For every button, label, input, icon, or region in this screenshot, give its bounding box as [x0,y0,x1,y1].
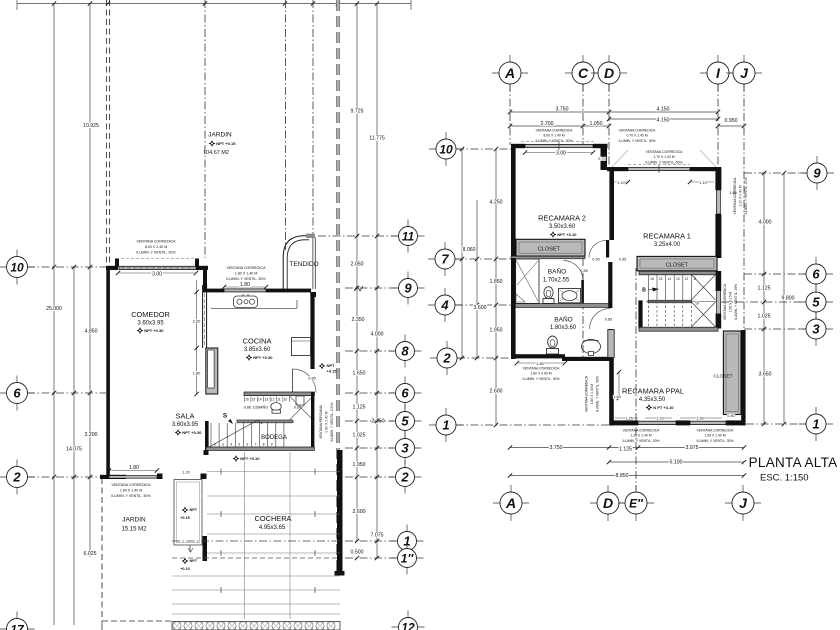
room label RECAMARA 2 [538,214,586,223]
dim text 9.800 [781,295,795,301]
cocina north wall east segment [266,289,311,293]
svg-text:6: 6 [812,267,820,282]
tendido curved wall [283,234,315,289]
grid row 2 axis (right) [345,475,394,479]
dim 1.60 (recppal west) [613,370,621,400]
grid bubble A (top) [492,55,528,91]
bottom chain 5.100 [607,459,746,465]
svg-text:104.67 M2: 104.67 M2 [203,150,229,156]
svg-text:NPT +3.10: NPT +3.10 [557,232,577,237]
grid bubble D (top) [591,55,627,91]
svg-text:3.50x3.60: 3.50x3.60 [549,224,576,230]
dim text 2.050 [350,261,364,267]
title ESC. 1:150 [760,473,809,484]
cocina door arc (south-east) [293,369,317,393]
grid bubble 4 [428,288,462,322]
grid row 3 stub (right) [744,328,806,330]
comedor north window (8.00x2.40) [119,266,196,269]
grid row 1'' axis [345,556,396,560]
dim text 0.500 [350,549,364,555]
grid bubble 2 (upper plan) [430,341,464,375]
svg-text:4.250: 4.250 [490,200,503,206]
svg-text:ILUMIN. Y VENTIL. 30%: ILUMIN. Y VENTIL. 30% [623,439,660,443]
dimension line 14.075 (vertical) [73,267,75,625]
rotated window text VENTANA PERSIANA (bodega east) [319,403,334,442]
svg-text:10: 10 [439,142,453,156]
svg-text:VENTANA CORREDICA: VENTANA CORREDICA [523,367,561,371]
grid row 2 stub (right plan) [457,357,512,359]
svg-text:0.60 X 0.40 M: 0.60 X 0.40 M [325,411,329,432]
rec2 door leaf+arc [589,240,609,258]
banio east wall segments [608,262,612,361]
window text 1.70x1.40 (recamara1) [612,150,716,167]
recppal north wall [639,327,718,331]
svg-text:ILUMIN. Y VENTIL. 100%: ILUMIN. Y VENTIL. 100% [330,403,334,442]
svg-text:VENTANA PERSIANA: VENTANA PERSIANA [319,404,323,438]
svg-text:4.000: 4.000 [371,332,384,338]
top dimension chain left plan [17,0,411,10]
svg-text:2.600: 2.600 [490,389,503,395]
svg-text:5: 5 [401,414,409,429]
window text VENTANA CORREDICA 1.80x1.40 (cocina) [226,266,266,281]
svg-text:14.075: 14.075 [66,447,82,453]
svg-text:7: 7 [255,443,257,447]
dim text 9.725 [350,108,364,114]
svg-text:VENTANA CORREDICA: VENTANA CORREDICA [226,266,266,270]
svg-text:1.80: 1.80 [129,465,139,471]
dim text 1.80 (comedor) [192,371,201,376]
bottom chain 3.750/1.125/3.975 [508,445,746,453]
dim 3.00 comedor window [116,271,198,278]
recamara1 east wall lower [715,214,721,258]
dim text 4.000 (left plan) [370,331,384,337]
svg-text:VENTANA CORREDICA: VENTANA CORREDICA [697,429,735,433]
closet recamara2 [511,239,585,256]
svg-text:1.80: 1.80 [240,282,250,288]
comedor east window sill block [206,348,218,394]
svg-text:4: 4 [440,298,449,313]
svg-text:2.050: 2.050 [351,262,364,268]
svg-text:12: 12 [271,398,275,402]
svg-text:NPT +0.10: NPT +0.10 [240,456,260,461]
dim 1.80 (sala south window) [107,465,159,473]
dim 1.80 cocina window [222,282,268,290]
room size 3.50x3.60 [549,224,576,230]
NPT +3.10 (recamara2) [550,231,578,238]
recamara1 north window [628,165,690,173]
svg-text:1.10: 1.10 [699,181,706,185]
svg-text:2: 2 [442,351,451,366]
cocina north window [224,289,266,292]
patio小 marks [188,545,193,552]
svg-text:25.000: 25.000 [46,306,62,312]
dim text 3.600 (right plan) [473,305,487,311]
svg-text:B: B [642,288,646,294]
recppal south wall segments [610,420,746,425]
grid bubble 1'' [391,542,424,575]
grid axis A vertical [509,84,511,145]
svg-text:ESC. 1:150: ESC. 1:150 [760,473,809,484]
banio mid wall [514,304,612,308]
svg-text:9: 9 [404,281,412,296]
svg-text:VENTANA CORREDICA: VENTANA CORREDICA [723,283,727,320]
svg-text:6: 6 [246,443,248,447]
dim text 1.025 (right plan) [757,313,771,319]
svg-text:3.00: 3.00 [556,151,566,157]
stair west wall (lower) [638,300,642,328]
dim text 1.650 [352,370,366,376]
dim text 1.20 (door) [182,470,190,474]
svg-text:ILUMIN. Y VENTIL. 30%: ILUMIN. Y VENTIL. 30% [744,178,748,215]
NPT +0.30 sala [175,429,203,436]
svg-text:VENTANA CORREDICA: VENTANA CORREDICA [733,177,737,215]
svg-text:10: 10 [284,398,288,402]
closet recamara ppal [713,331,741,418]
svg-text:JARDIN: JARDIN [208,132,232,139]
svg-text:+0.10: +0.10 [180,567,190,571]
svg-text:1.00 X 0.15 M: 1.00 X 0.15 M [729,291,733,312]
svg-text:3.600: 3.600 [474,305,487,311]
cochera floor joints vertical [221,452,315,619]
room label RECAMARA 1 [643,232,691,241]
svg-text:COMEDOR: COMEDOR [131,310,170,319]
svg-text:3.200: 3.200 [85,432,98,438]
banio1 lavabo [559,289,581,303]
half-bath north wall (gray) [244,392,314,396]
dim text 4.250 [489,199,503,205]
svg-text:C: C [578,65,589,81]
dim text 2.600 (left plan) [352,509,366,515]
grid line axis x=313 (dash-dot) [312,0,314,234]
banio2 toilet [547,336,559,354]
kitchen counter line [211,300,297,308]
grid row 6 axis (left) [27,391,106,395]
room size 4.95x3.65 [259,525,286,531]
lot boundary dashed (upper west) [107,0,110,266]
NPT +3.10 (recppal) [646,404,675,411]
room label BAÑO 1 [543,267,570,284]
svg-text:J: J [739,495,748,511]
stair winder diagonals [691,275,715,328]
top chain 3.750/4.150 [508,106,720,114]
svg-text:4.150: 4.150 [657,118,670,124]
grid bubble 11 [392,220,425,253]
svg-text:0.500: 0.500 [351,550,364,556]
NPT +0.30 cocina [246,354,274,361]
svg-text:8.00 X 2.40 M: 8.00 X 2.40 M [145,245,167,249]
dim text 1.025 (left plan) [352,432,366,438]
grid axis I vertical [717,84,719,168]
under-stair diagonals [289,396,314,421]
comedor east dim line 2.20/1.80 [195,280,199,396]
svg-text:NPT: NPT [190,508,198,512]
svg-text:TENDIDO: TENDIDO [289,261,318,268]
svg-text:5.100: 5.100 [670,460,683,466]
dim text 0.85 (banio2) [604,317,612,321]
grid bubble A (bottom) [493,485,529,521]
svg-text:0.90: 0.90 [592,258,599,262]
sala south window 1.80 [109,476,157,479]
grid row 3 axis [345,446,394,450]
grid row 4 stub [455,304,512,306]
svg-text:1.125: 1.125 [758,286,771,292]
svg-text:J: J [740,65,749,81]
dimension line 10.925/4.850 (vertical) [89,4,91,557]
dim 0.90 / 0.95 texts [592,257,627,261]
svg-text:6.025: 6.025 [84,551,97,557]
grid bubble C (top) [565,55,601,91]
NPT +0.30 comedor [137,327,165,334]
svg-text:1.025: 1.025 [758,314,771,320]
area text 15.15 M2 [121,527,147,533]
svg-text:6: 6 [13,386,21,401]
grid row 11 axis [318,234,397,238]
svg-text:BODEGA: BODEGA [261,435,287,441]
dimension line 11.775 (vertical) [376,4,378,558]
svg-text:1.20: 1.20 [656,416,663,420]
grid bubble I (top) [700,55,736,91]
grid bubble 10 (left) [0,250,35,285]
room label COCHERA [255,514,292,523]
svg-text:17: 17 [10,622,25,630]
recamara2 north wall corners [511,144,608,148]
svg-text:1.60: 1.60 [613,395,620,399]
banio2 south wall [514,354,612,361]
window text (banio2 south) [523,367,561,381]
divider wall rec2/rec1 [609,167,614,240]
svg-text:14: 14 [667,277,671,281]
cocina east wall [310,292,314,369]
door jamb posts sala south [157,474,207,480]
B section marker [642,288,659,294]
recamara2 north window [525,142,593,150]
grid bubble 10 (upper left) [429,132,463,166]
NPT +0.10 (driveway) [180,558,198,571]
dim text 1.950 [489,327,503,333]
grid row 10 axis (left) [27,265,106,269]
svg-text:11: 11 [277,398,281,402]
svg-text:2: 2 [12,470,21,485]
svg-text:NPT +0.15: NPT +0.15 [216,141,236,146]
closet recamara1 south wall [639,271,717,275]
refrigerator [292,338,311,356]
svg-text:+0.15: +0.15 [327,369,338,374]
grid bubble 1 (upper right) [799,407,833,441]
left dim column lines (right plan) [460,147,498,427]
svg-text:1″: 1″ [401,551,415,565]
recamara2 west wall [511,144,516,259]
stair east wall [716,271,722,329]
svg-text:NPT +0.30: NPT +0.30 [182,430,202,435]
svg-text:2.600: 2.600 [353,509,366,515]
svg-text:8.00 X 1.40 M: 8.00 X 1.40 M [543,134,564,138]
svg-text:15: 15 [252,398,256,402]
grid bubble 6 (left) [0,376,35,411]
bottom chain 8.850 [508,473,746,479]
svg-text:3.975: 3.975 [686,445,699,451]
svg-text:VENTANA CORREDICA: VENTANA CORREDICA [136,240,176,244]
grid axis D vertical [608,84,610,168]
window text ventana corrediza (jardin) [111,483,151,498]
svg-text:2.700: 2.700 [541,121,554,127]
svg-text:2.20: 2.20 [193,319,202,324]
jardin lower boundary lines [102,621,172,630]
room label BODEGA [261,435,287,441]
svg-text:3.60x3.95: 3.60x3.95 [137,321,164,327]
svg-text:ILUMIN. Y VENTIL. 30%: ILUMIN. Y VENTIL. 30% [111,494,151,498]
cochera floor joints horizontal [172,472,340,615]
stair numbers 16-11 (upper) [650,277,697,281]
rotated window text (recamara1 east) [733,177,748,215]
svg-text:CLOSET: CLOSET [713,374,732,380]
svg-text:NPT: NPT [190,559,198,563]
dim text 1.125 (right plan) [757,285,771,291]
svg-text:1.90: 1.90 [696,416,703,420]
svg-text:1: 1 [812,417,819,432]
svg-text:0.70: 0.70 [598,157,605,161]
svg-text:4.000: 4.000 [759,220,772,226]
svg-text:3.85x3.60: 3.85x3.60 [244,347,271,353]
svg-text:1.650: 1.650 [353,371,366,377]
grid bubble J (bottom) [725,485,761,521]
recamara1 east window 1.60 [716,190,737,214]
grid bubble 5 [389,405,422,438]
svg-text:12: 12 [685,277,689,281]
dim text 14.075 [65,446,82,452]
svg-text:ILUMIN. Y VENTIL. 30%: ILUMIN. Y VENTIL. 30% [136,251,176,255]
dim text 0.60 (half bath) [294,406,301,410]
dim text 3.200 [84,432,98,438]
closet recamara2 south wall [511,256,585,259]
grid row 6 axis (right) [345,391,394,395]
stair south wall (gray) [206,447,314,450]
svg-text:RECAMARA 2: RECAMARA 2 [538,214,586,223]
svg-text:0.86 1/2BAÑO: 0.86 1/2BAÑO [244,405,269,410]
stair tread numbers 2-9 [214,443,273,447]
grid axis J vertical [743,84,745,330]
svg-text:N PT +3.10: N PT +3.10 [653,405,674,410]
room label COMEDOR [131,310,170,319]
grid bubble 8 [389,335,422,368]
window text bottom-left (1.25x1.40) [623,429,661,443]
dim text 2.600 (right plan) [489,388,503,394]
stair half wall (gray) [648,300,692,303]
svg-text:ILUMIN. Y VENTIL. 50%: ILUMIN. Y VENTIL. 50% [646,160,683,164]
top chain 2.700/1.050/0.950 [508,117,746,128]
dim text 1.125 (left plan) [352,404,366,410]
dim text 2.20 [192,319,201,324]
svg-text:4.850: 4.850 [85,329,98,335]
S marker + arrow (stairs) [223,413,233,425]
svg-text:NPT +0.30: NPT +0.30 [253,355,273,360]
window text VENTANA CORREDICA 8.00x2.40 [136,240,176,255]
svg-text:1.125: 1.125 [353,405,366,411]
comedor north wall east corner [195,259,208,271]
svg-text:CLOSET: CLOSET [538,247,561,253]
dim text 0.85 (cocina door) [308,376,316,380]
grid row 1 axis [345,539,396,543]
svg-text:3.25x4.00: 3.25x4.00 [654,242,681,248]
svg-text:0.85: 0.85 [308,377,315,381]
svg-text:VENTANA CORREDICA: VENTANA CORREDICA [619,129,657,133]
roof dashes above recamara1 window [628,164,690,166]
NPT +0.15 marker jardin [209,140,237,147]
grid row 1 stub left [456,424,610,426]
lot line dashed through cochera [172,557,340,559]
sala south wall west block [100,475,126,479]
svg-text:ILUMIN. Y VENTIL. 30%: ILUMIN. Y VENTIL. 30% [734,284,738,320]
dimension line 9.725/2.050 (vertical) [356,4,358,541]
grid bubble 2 (left) [0,460,35,495]
svg-text:1.050: 1.050 [590,121,603,127]
svg-text:0.80: 0.80 [727,414,734,418]
svg-text:0.95: 0.95 [619,258,626,262]
cochera west jambs [203,450,209,561]
svg-text:RECAMARA 1: RECAMARA 1 [643,232,691,241]
window text top-mid (0.70x1.45) [619,129,657,143]
svg-text:16: 16 [650,277,654,281]
recppal south windows [638,421,726,424]
grid bubble 5 (upper right) [799,285,833,319]
room label BAÑO 2 [550,315,577,332]
grid row 9 axis [345,286,397,291]
svg-text:7: 7 [441,252,449,267]
grid row 8 axis [345,349,394,353]
svg-text:1.80: 1.80 [193,371,202,376]
svg-text:ILUMIN. Y VENTIL. 30%: ILUMIN. Y VENTIL. 30% [619,139,656,143]
svg-text:3: 3 [401,441,409,456]
half-bath fixtures small [296,396,304,405]
banio1 door arc [564,261,584,304]
NPT +0.15 marker (patio side) [319,363,338,374]
svg-text:1.25 X 1.40 M: 1.25 X 1.40 M [630,434,651,438]
svg-text:ILUMIN. Y VENTIL. 30%: ILUMIN. Y VENTIL. 30% [523,377,560,381]
svg-text:D: D [604,65,614,81]
svg-text:15: 15 [659,277,663,281]
grid bubble 9 [392,272,425,305]
grid row 5 stub (right) [721,301,806,303]
svg-text:E″: E″ [629,496,644,510]
svg-text:3: 3 [812,322,820,337]
svg-text:9: 9 [813,166,821,181]
room size 3.60x3.95 (sala) [172,422,199,428]
right dim column lines (right plan) [762,171,786,426]
svg-text:12: 12 [401,620,415,630]
svg-text:VENTANA CORREDICA: VENTANA CORREDICA [623,429,661,433]
svg-text:3.60x3.95: 3.60x3.95 [172,422,199,428]
dim 1.10 pair (recamara1) [610,180,714,185]
room size 3.60x3.95 (comedor) [137,321,164,327]
grid axis E'' vertical [635,268,637,490]
svg-text:BAÑO: BAÑO [548,267,566,276]
svg-text:3.00: 3.00 [152,272,162,278]
svg-text:8: 8 [263,443,265,447]
svg-text:4.35x3.50: 4.35x3.50 [639,397,666,403]
svg-text:PLANTA ALTA: PLANTA ALTA [749,455,838,470]
svg-text:4.150: 4.150 [657,107,670,113]
svg-text:RECAMARA PPAL: RECAMARA PPAL [622,387,684,396]
recppal west window [608,330,614,358]
svg-text:1.70 X 1.40 M: 1.70 X 1.40 M [653,155,674,159]
svg-text:14: 14 [258,398,262,402]
room size 3.85x3.60 [244,347,271,353]
svg-text:VENTANA CORREDICA: VENTANA CORREDICA [585,375,589,412]
svg-text:1.950: 1.950 [490,328,503,334]
stair treads upper flight [648,274,691,301]
banio2 west wall [511,258,516,359]
svg-text:JARDIN: JARDIN [122,517,146,524]
grid bubble 2 (right) [389,461,422,494]
